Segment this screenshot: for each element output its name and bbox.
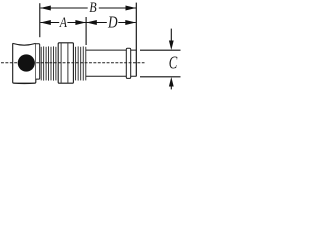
nut facet line 1 [60, 43, 62, 82]
middle extension line [85, 17, 87, 45]
arrow A right [75, 20, 86, 25]
arrow C bottom (up) [170, 85, 172, 90]
svg-text:A: A [59, 15, 68, 31]
dimension line A [40, 22, 86, 24]
arrow D left [86, 20, 97, 25]
dimension line B [40, 7, 136, 9]
arrow B right [126, 6, 137, 11]
svg-text:D: D [107, 12, 118, 31]
right extension line merged with tube end face [135, 3, 137, 77]
threads section 1 [41, 46, 56, 80]
dimension line D [86, 22, 136, 24]
arrow D right [125, 20, 136, 25]
threads section 2 [76, 46, 86, 80]
head bottom curve [13, 82, 35, 85]
tube top edge [86, 49, 136, 51]
drain hole (black circle) [18, 54, 35, 71]
C bottom extension line [140, 76, 181, 78]
barb bead ring [126, 48, 130, 78]
tube (hose barb body) [86, 50, 136, 76]
tube bottom edge [86, 75, 136, 77]
svg-text:B: B [89, 0, 97, 16]
hex nut [58, 43, 73, 83]
arrow B left [40, 6, 51, 11]
flange rim band [36, 44, 40, 79]
head (flange cap) [13, 43, 36, 83]
left extension line [39, 3, 41, 37]
arrow C top (down) [170, 29, 172, 43]
C top extension line [140, 49, 181, 51]
arrow A left [40, 20, 51, 25]
centerline [1, 62, 145, 64]
nut facet line 2 [67, 43, 69, 82]
svg-text:C: C [169, 53, 178, 73]
